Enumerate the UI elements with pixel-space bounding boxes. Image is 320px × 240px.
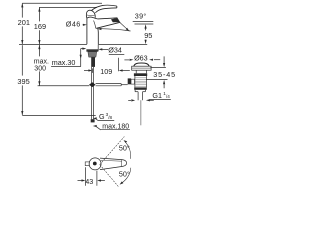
- arrow 201 top up: [21, 3, 23, 7]
- svg-text:39°: 39°: [135, 12, 147, 21]
- arc arrow top: [125, 141, 131, 159]
- lever collar: [86, 10, 95, 18]
- svg-text:/8: /8: [108, 115, 112, 120]
- svg-text:50°: 50°: [119, 170, 130, 179]
- svg-text:50°: 50°: [119, 144, 130, 153]
- arrow 169 bottom down: [38, 40, 40, 44]
- washer: [86, 49, 98, 51]
- svg-text:43: 43: [85, 177, 93, 186]
- deck line right: [98, 43, 147, 45]
- svg-text:201: 201: [18, 18, 30, 27]
- threaded stud (dark): [91, 57, 95, 67]
- supply hose double line: [90, 67, 92, 119]
- 95 dimension: [145, 28, 147, 41]
- ext line clamp bottom: [146, 79, 168, 81]
- svg-text:Ø63: Ø63: [134, 54, 148, 63]
- arrow G3/8 points left: [93, 117, 97, 119]
- deck line left: [19, 43, 87, 45]
- svg-text:169: 169: [34, 22, 46, 31]
- arrow max.30 leader down mid: [80, 55, 82, 59]
- extension line lever tip (169 ref): [39, 6, 97, 8]
- lever blade: [91, 5, 117, 13]
- faucet body dome top: [87, 17, 98, 19]
- Ø34 underline: [109, 53, 125, 55]
- lever collar inner arc: [87, 14, 95, 17]
- 109 dimension: [84, 58, 130, 73]
- svg-text:35-45: 35-45: [153, 70, 176, 79]
- arrow 43 left points right: [82, 179, 86, 181]
- lever blade side view: [100, 158, 127, 170]
- drain dome cap: [134, 63, 149, 66]
- arrow Ø46 tip at body: [83, 24, 87, 26]
- G1 1/4 underline: [149, 99, 171, 101]
- arrow 395 bottom down: [21, 111, 23, 115]
- extension line max300 bottom / pop-up rod ref: [38, 85, 90, 87]
- Ø34 leader tail: [102, 48, 109, 50]
- drain collar dark band: [134, 73, 147, 76]
- pop-up rod diamond joint: [89, 82, 96, 87]
- lever pivot inner dot: [93, 162, 97, 166]
- pop-up rod tube: [96, 84, 128, 86]
- body bottom: [134, 90, 136, 92]
- arrow Ø63 left (points right): [130, 59, 134, 61]
- svg-text:Ø46: Ø46: [66, 20, 81, 29]
- extension line top (overall height 201 ref): [22, 2, 102, 4]
- arc line under spout: [101, 29, 131, 31]
- hose end fitting: [91, 119, 95, 122]
- lever blade end line: [121, 160, 123, 167]
- arrow 35-45 top down: [163, 63, 165, 67]
- arrow max300 bottom down: [38, 81, 40, 85]
- arrow at diagonal end: [126, 28, 130, 32]
- svg-text:G: G: [99, 112, 105, 121]
- arrow 109 right (points left at tick): [119, 69, 123, 71]
- thread lines: [135, 78, 146, 86]
- arrow 109 left (points right at tick): [88, 69, 92, 71]
- lever stub: [85, 162, 89, 166]
- 43 dimension: [78, 167, 105, 186]
- dashed swing line down 50°: [100, 165, 119, 187]
- left leader tail: [128, 99, 131, 101]
- arrow 35-45 bottom up: [163, 80, 165, 84]
- arrow 201 bottom down: [21, 40, 23, 44]
- 39° angle annotation: [101, 21, 154, 31]
- faucet main view: [86, 5, 120, 44]
- body edge tick below deck: [97, 45, 99, 52]
- arrow Ø63 right (points left): [149, 59, 153, 61]
- svg-text:95: 95: [144, 31, 152, 40]
- arrow Ø34 left: [98, 48, 102, 50]
- svg-text:/4: /4: [166, 94, 170, 99]
- dimension line 169/max300 vertical: [38, 7, 40, 21]
- arrow max.180 points left: [93, 125, 97, 127]
- lever pivot circle: [89, 158, 101, 170]
- Ø63 dimension: [124, 59, 160, 61]
- mounting nut: [88, 52, 97, 57]
- faucet body left edge: [86, 18, 88, 44]
- svg-text:G1: G1: [152, 91, 162, 100]
- arrow 95 top up: [145, 24, 147, 28]
- arrow max300 top up: [38, 45, 40, 49]
- tailpipe centerline: [140, 100, 142, 125]
- arrow G1 right points left: [146, 99, 150, 101]
- svg-text:300: 300: [34, 65, 46, 72]
- drain neck: [135, 70, 137, 73]
- rod connection port at drain: [131, 79, 135, 84]
- svg-text:109: 109: [100, 67, 112, 76]
- dashed swing line up 50°: [100, 137, 125, 165]
- faucet body right edge: [97, 28, 100, 44]
- drain (pop-up waste): [132, 63, 151, 125]
- faucet spout underside: [96, 22, 120, 28]
- extension line 395 bottom: [22, 114, 95, 116]
- right leader tail: [149, 99, 153, 101]
- drain threaded body: [134, 76, 136, 87]
- faucet body/spout junction curve: [94, 21, 96, 29]
- svg-text:Ø34: Ø34: [108, 46, 122, 55]
- compression nut dark band: [134, 87, 147, 89]
- spout tip mousseur wedge (dark): [111, 18, 120, 22]
- dimension line 201/395 vertical: [21, 3, 23, 17]
- arrow G1 left points right: [131, 99, 135, 101]
- drain flange: [132, 66, 151, 70]
- arc arrow bottom: [121, 168, 131, 184]
- rod connection nut (dark cap): [128, 78, 131, 84]
- arrow at spout underside (arc left end): [97, 28, 101, 30]
- arrow 95 bottom down: [145, 40, 147, 44]
- ext line flange bottom: [150, 67, 166, 69]
- svg-text:395: 395: [17, 77, 29, 86]
- arrow 169 top up: [38, 7, 40, 11]
- svg-text:max.30: max.30: [52, 58, 76, 67]
- arrow max.30 leader right at washer: [82, 48, 86, 50]
- tailpipe walls: [137, 92, 139, 101]
- lever blade inner top line: [101, 159, 122, 162]
- arrow 43 right points left: [97, 179, 101, 181]
- angle reference line upper: [133, 20, 154, 22]
- 35-45 dimension: [146, 56, 168, 88]
- faucet spout top edge: [98, 18, 118, 19]
- diagonal witness line from spout tip: [120, 23, 127, 29]
- angle reference line lower / 95 top ext: [135, 23, 154, 25]
